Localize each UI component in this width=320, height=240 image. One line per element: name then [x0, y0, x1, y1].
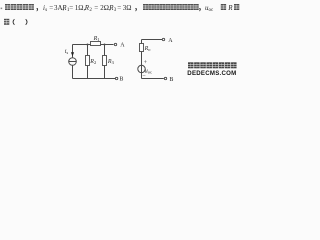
- wire: left branch upper: [72, 45, 74, 58]
- svg-text:A: A: [120, 42, 125, 48]
- wire: between R0 and source: [141, 52, 143, 66]
- wire: top rail: [73, 44, 114, 46]
- text: 和 (simulated): [221, 4, 226, 10]
- svg-text:A: A: [168, 38, 173, 44]
- text: fullwidth comma: [36, 8, 38, 11]
- text: 应 (simulated): [234, 4, 239, 10]
- svg-text:=: =: [49, 4, 53, 12]
- svg-text:3Ω: 3Ω: [123, 4, 132, 12]
- terminal A (left circuit): [114, 43, 116, 45]
- watermark line 1: 织梦内容管理系统 (simulated): [188, 62, 237, 68]
- text: comma: [199, 8, 201, 11]
- resistor R1 (horizontal box): [91, 42, 101, 46]
- wire: below source: [141, 73, 143, 79]
- text: 它的戴维宁等效电路中 (simulated): [143, 4, 199, 10]
- svg-text:R3: R3: [107, 59, 115, 65]
- terminal B (right circuit): [164, 77, 166, 79]
- wire: R3 branch upper: [104, 45, 106, 56]
- resistor R0 (vertical box): [140, 44, 144, 52]
- wire: left branch lower: [72, 65, 74, 78]
- current direction arrow: [71, 52, 74, 56]
- svg-text:R1: R1: [93, 36, 100, 42]
- svg-text:=: =: [94, 4, 98, 12]
- text: 是 (simulated): [4, 19, 9, 25]
- text: parentheses ( ): [13, 19, 14, 25]
- current source is (circle with bar): [69, 58, 77, 66]
- text: 图示电路中 (simulated): [5, 4, 34, 10]
- svg-text:B: B: [169, 77, 173, 83]
- svg-text:=: =: [69, 4, 73, 12]
- node junction at R3 top: [104, 44, 106, 46]
- terminal B (left circuit): [115, 77, 117, 79]
- wire: top rail: [142, 39, 163, 41]
- faint leading mark: [1, 8, 3, 10]
- svg-text:s: s: [45, 8, 47, 13]
- svg-text:B: B: [119, 76, 123, 82]
- wire: R2 branch upper: [87, 45, 89, 56]
- node junction at R2 top: [87, 44, 89, 46]
- svg-text:R2: R2: [89, 59, 96, 65]
- wire: R3 branch lower: [104, 66, 106, 79]
- terminal A (right circuit): [162, 38, 164, 40]
- resistor R2 (vertical box): [86, 56, 90, 66]
- wire: bottom rail: [142, 78, 164, 80]
- svg-text:is: is: [65, 48, 69, 55]
- resistor R3 (vertical box): [103, 56, 107, 66]
- svg-text:R: R: [227, 4, 233, 12]
- svg-text:Ro: Ro: [144, 46, 152, 52]
- svg-text:DEDECMS.COM: DEDECMS.COM: [187, 70, 236, 77]
- wire: bottom rail: [73, 78, 116, 80]
- svg-text:=: =: [117, 4, 121, 12]
- wire: branch above R0: [141, 40, 143, 44]
- wire: R2 branch lower: [87, 66, 89, 79]
- voltage source uoc (circle with vertical bar): [138, 65, 145, 72]
